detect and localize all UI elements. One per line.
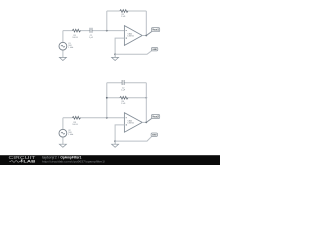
- resistor R4: [120, 96, 128, 99]
- wire ground to flag bottom: [115, 137, 152, 142]
- capacitor C2: [122, 80, 124, 85]
- junction ground node: [114, 53, 116, 55]
- capacitor C1: [90, 28, 92, 33]
- wire to output flag: [146, 32, 151, 36]
- wire noninverting input: [115, 38, 124, 54]
- wire op-amp output bottom: [142, 121, 146, 123]
- footer bar: [0, 155, 220, 165]
- wire noninverting input bottom: [115, 125, 124, 141]
- svg-text:GND: GND: [152, 49, 157, 51]
- svg-text:100 Ω: 100 Ω: [72, 124, 78, 126]
- resistor R2: [120, 10, 128, 13]
- wire V1 stem top: [62, 31, 64, 43]
- svg-text:Vout2: Vout2: [152, 116, 159, 119]
- wire feedback left vertical: [106, 11, 108, 31]
- svg-text:http://circuitlab.com/c/pu9637: http://circuitlab.com/c/pu9637/opampfilt…: [42, 160, 105, 164]
- voltage source V1: [59, 42, 67, 50]
- wire to output flag bottom: [146, 119, 151, 123]
- wire feedback left vertical bottom: [106, 83, 108, 118]
- wire C2 branch: [107, 82, 147, 84]
- wire feedback right vertical: [145, 11, 147, 36]
- node flag Vout2: [151, 115, 159, 119]
- ground op-amp2: [112, 141, 119, 147]
- op-amp OA1: [124, 26, 142, 46]
- svg-text:1 kΩ: 1 kΩ: [121, 16, 126, 18]
- svg-text:GND: GND: [152, 135, 157, 137]
- ground V2: [59, 144, 66, 147]
- svg-text:LM741: LM741: [128, 123, 135, 125]
- logo bolt: [21, 159, 24, 163]
- junction input node bottom: [106, 117, 108, 119]
- wire R4 branch: [107, 97, 147, 99]
- voltage source V2: [59, 129, 67, 137]
- svg-text:1 μF: 1 μF: [121, 89, 126, 91]
- svg-text:Vout1: Vout1: [152, 29, 159, 32]
- wire feedback right vertical bottom: [145, 83, 147, 123]
- ground op-amp1: [112, 54, 119, 60]
- svg-text:100 Ω: 100 Ω: [72, 37, 78, 39]
- wire op-amp output: [142, 35, 146, 37]
- svg-text:1 kΩ: 1 kΩ: [121, 103, 126, 105]
- junction R4 left: [106, 97, 108, 99]
- svg-text:LM741: LM741: [128, 36, 135, 38]
- wire input horizontal bottom: [63, 117, 125, 119]
- resistor R1: [72, 29, 80, 32]
- wire V1 stem bottom: [62, 50, 64, 57]
- junction ground node bottom: [114, 140, 116, 142]
- node flag GND bottom: [151, 133, 157, 137]
- junction output node: [145, 35, 147, 37]
- svg-text:1 μF: 1 μF: [89, 37, 94, 39]
- junction R4 right: [145, 97, 147, 99]
- wire input horizontal top: [63, 30, 125, 32]
- node flag Vout1: [151, 28, 159, 32]
- ground V1: [59, 57, 66, 60]
- junction input node: [106, 30, 108, 32]
- resistor R3: [72, 116, 80, 119]
- node flag GND top: [151, 48, 157, 52]
- op-amp OA2: [124, 113, 142, 133]
- wire V2 stem bottom: [62, 137, 64, 144]
- svg-text:1 kHz: 1 kHz: [68, 134, 73, 136]
- svg-text:1 kHz: 1 kHz: [68, 47, 73, 49]
- junction output node bottom: [145, 122, 147, 124]
- svg-text:LAB: LAB: [23, 159, 35, 164]
- wire V2 stem top: [62, 118, 64, 130]
- wire feedback top horizontal: [107, 10, 147, 12]
- wire ground to flag: [115, 51, 152, 55]
- logo squiggle: [9, 161, 21, 163]
